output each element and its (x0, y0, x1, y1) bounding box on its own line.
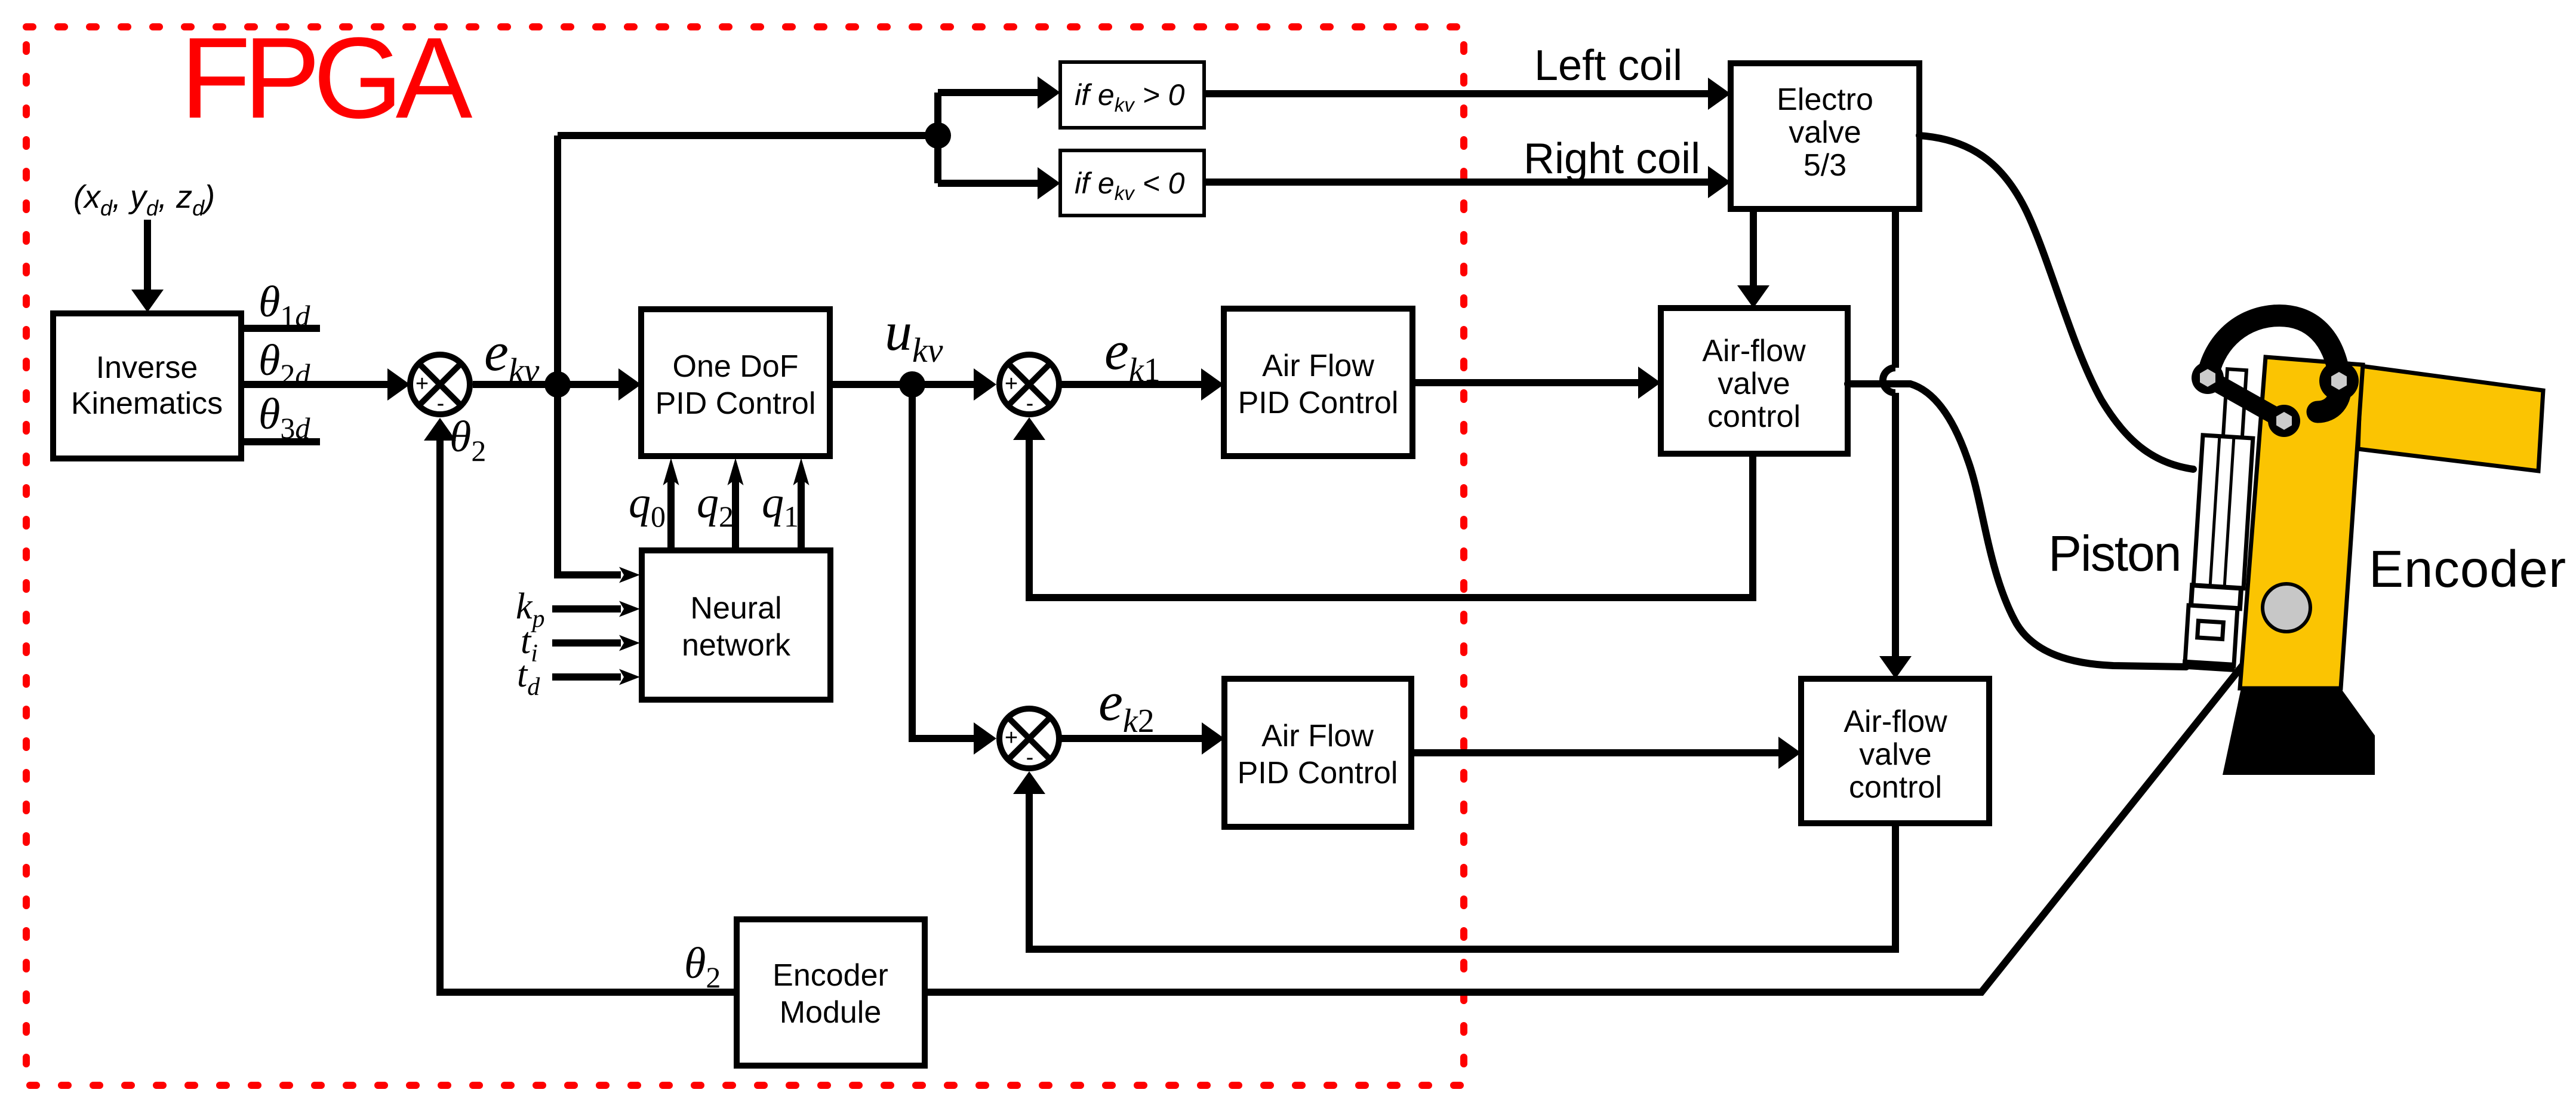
svg-text:valve: valve (1789, 115, 1861, 150)
svg-text:Air Flow: Air Flow (1262, 349, 1374, 383)
robot piston assembly (2182, 367, 2257, 672)
robot pivot nut lower (2276, 412, 2292, 430)
wire Electro valve down to Air-flow valve control 2 (with hop) (1892, 209, 1899, 368)
wire kp input (552, 605, 621, 613)
svg-text:valve: valve (1859, 737, 1931, 772)
svg-text:Neural: Neural (690, 591, 781, 626)
wire feedback Air-flow valve 1 to sum S2 (1029, 439, 1753, 598)
node ukv junction dot (899, 371, 925, 398)
robot pivot nut left (2200, 369, 2215, 387)
block Neural network (642, 550, 830, 700)
wire q0 arrow (667, 478, 675, 550)
wire ukv branch down to sum S3 (909, 384, 916, 738)
wire q2 arrow (732, 478, 739, 550)
svg-text:control: control (1849, 770, 1942, 805)
svg-text:5/3: 5/3 (1803, 148, 1846, 183)
block Air Flow PID Control 1 (1224, 309, 1412, 456)
svg-text:+: + (416, 371, 429, 396)
summer S2 (999, 355, 1059, 416)
svg-text:-: - (1026, 745, 1034, 770)
node comparator branch dot (925, 122, 951, 149)
svg-text:Encoder: Encoder (2369, 540, 2566, 598)
svg-text:Module: Module (780, 995, 882, 1030)
wire ek1: sum S2 to Air Flow PID 1 (1059, 381, 1202, 388)
wire td input (552, 673, 621, 681)
svg-text:Inverse: Inverse (96, 350, 198, 385)
wire tube from Air-flow valve control 1 to piston (lower) (1848, 384, 2186, 667)
wire tube from Electro valve to piston (upper) (1919, 136, 2193, 469)
wire theta3d stub (241, 438, 320, 445)
wire feedback Air-flow valve 2 to sum S3 (1029, 793, 1895, 949)
svg-text:Kinematics: Kinematics (71, 386, 223, 421)
wire to neural network top input (554, 571, 621, 578)
robot clamp curved band (2208, 316, 2341, 412)
wire Electro valve to Air-flow valve control 1 (1750, 209, 1757, 287)
robot pivot nut right (2331, 372, 2347, 390)
block Inverse Kinematics (53, 313, 241, 458)
wire top rail to comparator branch (558, 132, 938, 139)
wire theta2d to sum S1 (241, 381, 388, 388)
wire ti input (552, 639, 621, 647)
wire encoder rail: robot to Encoder Module (925, 615, 2283, 992)
svg-text:Encoder: Encoder (773, 958, 888, 993)
block Air-flow valve control 2 (1801, 679, 1989, 823)
svg-text:Air-flow: Air-flow (1702, 334, 1806, 368)
svg-text:Piston: Piston (2048, 525, 2180, 581)
wire input to Inverse Kinematics (144, 220, 151, 293)
robot arm yellow horizontal link (2358, 366, 2543, 471)
wire into if ekv<0 (938, 180, 1039, 187)
block Air-flow valve control 1 (1661, 308, 1848, 454)
node ekv junction dot (544, 371, 571, 398)
svg-text:-: - (437, 391, 445, 416)
svg-text:Electro: Electro (1777, 82, 1873, 117)
robot illustration (2182, 316, 2543, 775)
svg-text:Left coil: Left coil (1534, 42, 1682, 90)
robot yellow vertical link (2240, 357, 2363, 688)
svg-text:network: network (682, 628, 791, 663)
wire branch vertical (934, 93, 941, 183)
svg-text:+: + (1005, 725, 1018, 750)
robot clamp lower bar (2208, 378, 2284, 421)
block Electro valve 5/3 (1731, 63, 1919, 209)
wire theta1d stub (241, 325, 320, 332)
robot encoder disc (2263, 584, 2310, 632)
wire Left coil line (1204, 90, 1709, 97)
svg-text:control: control (1707, 399, 1801, 434)
svg-text:Right coil: Right coil (1524, 135, 1700, 183)
block One DoF PID Control (641, 309, 830, 456)
svg-text:Air Flow: Air Flow (1261, 719, 1374, 753)
svg-text:PID Control: PID Control (1238, 386, 1399, 420)
wire theta2 feedback: Encoder Module to sum S1 (440, 439, 737, 992)
comparator box if ekv > 0 (1060, 62, 1204, 128)
FPGA dashed boundary (26, 27, 1464, 1085)
summer S1 (410, 355, 470, 416)
svg-text:PID Control: PID Control (655, 386, 816, 421)
wire into if ekv>0 (938, 89, 1039, 96)
svg-text:FPGA: FPGA (180, 13, 473, 142)
svg-text:-: - (1026, 391, 1034, 416)
wire ekv branch vertical (up to comparators, down to neural network) (554, 136, 561, 575)
wire Air Flow PID 2 to Air-flow valve control 2 (1411, 749, 1779, 756)
wire ukv: One DoF PID to sum S2 (830, 381, 974, 388)
wire Right coil line (1204, 178, 1709, 186)
wire ekv: sum S1 to One DoF PID (473, 381, 620, 388)
svg-text:valve: valve (1718, 367, 1790, 401)
svg-text:Air-flow: Air-flow (1843, 704, 1947, 739)
comparator box if ekv < 0 (1060, 150, 1204, 216)
robot clamp pivot bosses (2192, 362, 2224, 394)
svg-text:PID Control: PID Control (1238, 756, 1398, 790)
robot black base (2223, 688, 2375, 775)
svg-text:+: + (1005, 371, 1018, 396)
block Air Flow PID Control 2 (1224, 679, 1411, 827)
block Encoder Module (737, 919, 925, 1066)
wire Air Flow PID 1 to Air-flow valve control 1 (1412, 379, 1639, 386)
wire sum S3 to Air Flow PID 2 (1059, 735, 1202, 742)
svg-text:One DoF: One DoF (673, 349, 799, 384)
summer S3 (999, 709, 1059, 770)
wire q1 arrow (798, 478, 805, 550)
